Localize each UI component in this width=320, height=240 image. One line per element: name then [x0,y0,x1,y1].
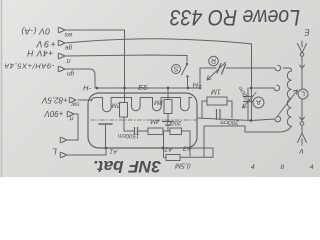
tap hook bottom [275,116,281,122]
node H- junction [96,87,99,90]
capacitor C2 stem [167,125,169,131]
tube inner heater rail with filaments [91,98,192,112]
svg-text:sw: sw [70,100,79,107]
svg-text:rt: rt [65,57,70,64]
earth jack E label [304,28,310,37]
wire cathode return [204,126,288,157]
wire sw label [70,100,79,107]
wire +9V to tap2 [251,87,274,89]
wire ws label [64,31,73,38]
svg-text:0V (-A): 0V (-A) [21,27,50,37]
wire regen branch up [200,68,216,88]
terminal +82,5V label [42,96,68,105]
switch S blade [182,65,188,89]
svg-text:L: L [52,147,57,157]
terminal 0V(-A) plug [58,27,65,33]
svg-text:gn: gn [67,70,75,77]
svg-text:200cm: 200cm [220,118,240,125]
pin label A2 [164,146,173,153]
pin label A3 [183,145,192,152]
svg-text:+4V H: +4V H [26,49,53,59]
pot R circle [209,56,219,66]
switch S circle [172,65,181,74]
terminal 0V(-A) label [21,27,50,37]
resistor R5 body [166,155,180,161]
junction Eb stub [167,87,170,90]
junction +9V tap2 [250,87,253,90]
antenna A label [299,147,304,156]
wire speaker to A1 [68,148,106,155]
wire heater bus H [97,87,200,89]
capacitor C-regen plates [217,64,226,75]
tap hook mid [274,85,280,91]
pot R letter [211,57,216,64]
svg-text:+82,5V: +82,5V [42,96,68,105]
earth plug arrow [300,57,305,69]
terminal +4VH plug [58,53,65,59]
resistor R5 0,5M label [175,162,191,169]
junction A2 bottom edge [162,147,165,150]
junction 0V rail on heater bus [123,87,126,90]
wire R1 to C1 [124,117,134,131]
grid dash-dot line [91,119,196,121]
terminal +90V plug [67,111,74,117]
tube 3NF envelope [88,93,197,148]
svg-text:R: R [211,57,216,64]
capacitor C1 1500cm label [118,132,139,138]
wire envelope bottom extension [190,147,213,149]
svg-text:1M: 1M [211,88,221,95]
svg-text:Loewe RO 433: Loewe RO 433 [169,5,300,30]
capacitor C-regen arrow [207,62,226,80]
svg-text:A2: A2 [164,146,173,153]
svg-text:4M: 4M [150,118,159,125]
wire Eb stub to R2 [167,88,169,100]
junction grid/+9V vertical [250,119,253,122]
svg-text:200Ω: 200Ω [166,119,182,125]
wire gn label [67,70,75,77]
terminal +9V label [35,39,56,49]
svg-text:A1: A1 [109,148,118,155]
switch S contacts [186,63,188,65]
resistor R1 2M label [111,102,121,109]
resistor R2 8M label [153,99,162,106]
antenna jack stem loop [300,122,304,126]
svg-text:S: S [173,65,178,72]
svg-text:0,5M: 0,5M [175,162,191,169]
speaker fork 2 [60,152,67,158]
terminal +9V plug [58,40,65,46]
resistor R4 body [170,128,182,135]
wire 0V rail [65,30,125,103]
paper left edge shadow [1,0,3,177]
wire earth down [301,69,303,90]
wire +4V to switch [65,55,187,62]
svg-text:ws: ws [64,31,73,38]
svg-text:E6-: E6- [138,83,150,92]
svg-text:E: E [304,28,310,37]
coil L1 winding [287,71,291,130]
svg-text:L: L [301,90,305,97]
wire grid line to tap3 [197,118,275,121]
wire C1 to R3 [138,130,149,132]
dial L letter [301,90,305,97]
wire +90V down to speaker [68,114,78,140]
tap hook top [275,65,281,71]
svg-text:3NF bat.: 3NF bat. [93,157,161,176]
terminal +45 label [4,62,55,71]
dial A circle [253,97,264,108]
capacitor C2 plates [163,122,174,126]
wire antenna stem [301,126,303,134]
wire regen to coil tap [226,67,275,69]
svg-text:+90V: +90V [44,109,64,118]
terminal +82,5V plug [69,97,76,103]
svg-text:2M: 2M [111,102,121,109]
svg-text:A: A [256,98,261,105]
wire below L dial [301,99,303,118]
svg-text:H+: H+ [193,81,203,90]
wire R5 right [180,148,213,157]
capacitor C-tune plates [244,97,253,102]
resistor R3 4M label [150,118,159,125]
antenna plug arrow [300,117,305,120]
wire coil top entry [283,68,292,71]
svg-text:ge: ge [65,44,73,51]
resistor R4 200 label [166,119,182,125]
earth jack stem loop [300,53,304,57]
dial L circle [298,89,308,99]
title Loewe RO 433 [169,5,300,30]
pin label A1 [109,148,118,155]
svg-text:1500cm: 1500cm [118,132,139,138]
svg-text:v: v [299,147,304,156]
terminal +4VH label [26,49,53,59]
resistor R-gridleak 1M label [211,88,221,95]
wire +9V rail [65,39,252,121]
terminal +45 plug [58,66,65,72]
resistor R-gridleak loop [202,101,232,118]
wire R3 to R4 [163,130,170,132]
speaker terminal L label [52,147,57,157]
svg-text:H-: H- [83,84,91,93]
switch S letter [173,65,178,72]
junction A1 bottom edge [105,147,108,150]
junction regen corner [199,87,202,90]
wire row4 to H- node [65,69,95,88]
capacitor C-tune 500cm label [238,85,253,103]
capacitor C-grid 200cm label [220,118,240,125]
capacitor C-tune arrow [243,93,257,109]
capacitor C-tune stubs [247,88,249,120]
terminal +90V label [44,109,64,118]
anode A2 stem [164,131,167,157]
svg-text:rt: rt [68,114,73,121]
svg-text:4 8 4: 4 8 4 [251,164,320,171]
wire ge label [65,44,73,51]
resistor R-gridleak body [207,97,227,105]
junction switch bottom [187,87,190,90]
wire rt label [65,57,70,64]
antenna jack fork [298,133,307,145]
speaker fork 1 [60,137,67,143]
svg-text:-9AH/+X5,4A: -9AH/+X5,4A [4,62,55,71]
resistor R2 body [164,100,172,114]
svg-text:8M: 8M [153,99,162,106]
resistor R3 body [148,128,163,135]
anode A1 plate [99,123,112,125]
resistor R2 stubs [167,114,169,122]
wire +82,5V to tube [78,99,92,101]
caption 3NFbat. [93,157,161,176]
earth jack fork [298,41,307,53]
wire R4 to A3 stem [182,130,191,132]
anode A3 stem [189,131,191,156]
coil variometer arrow [276,90,298,118]
resistor R1 body [120,103,128,118]
dial A letter [256,98,261,105]
capacitor C-grid plates [217,110,221,120]
wire rt2 label [68,114,73,121]
svg-text:+9V: +9V [35,39,56,49]
capacitor C1 plates [135,128,138,135]
junction A3 bottom edge [189,147,192,150]
